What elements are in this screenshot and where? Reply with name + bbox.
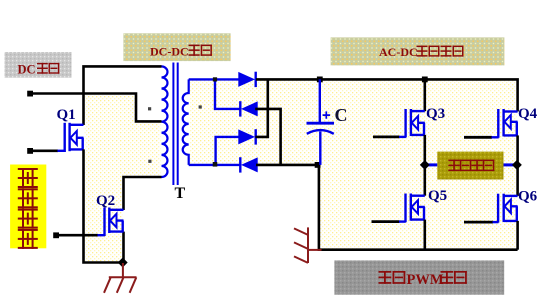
wire: D2 anode to bottom bus: [255, 109, 280, 165]
label box: AC output (交流输出): [437, 152, 503, 180]
wire: Q2 gate lead: [56, 234, 105, 237]
wire: DC- bottom bus: [256, 165, 518, 250]
svg-text:Q5: Q5: [428, 188, 447, 204]
transformer T primary winding: [162, 66, 168, 177]
node: cap top junction: [317, 77, 323, 83]
label box: AC-DC full-bridge inverter (AC-DC全桥逆变): [331, 37, 505, 65]
wire: Q4 source to node B to Q6 drain: [516, 135, 519, 196]
wire: Q5 gate lead: [372, 220, 406, 223]
transistor Q5: [406, 194, 425, 223]
label Q4: [518, 106, 538, 122]
transistor Q3: [406, 109, 425, 138]
transformer core: [173, 63, 177, 186]
svg-text:PWM: PWM: [407, 272, 444, 288]
svg-text:Q6: Q6: [518, 189, 538, 205]
wire: Q4 gate lead: [464, 136, 499, 139]
label Q1: [57, 107, 76, 123]
node: Q2 gate terminal: [53, 232, 59, 238]
capacitor C: [307, 79, 335, 164]
label T: [175, 185, 186, 202]
wire: Q5 source to bottom bus: [423, 220, 426, 250]
label box: DC-DC boost (DC-DC升压): [123, 33, 230, 61]
diode D1: [238, 72, 255, 87]
node: Q3 top junction: [422, 77, 428, 83]
wire: Q3 gate lead: [373, 135, 406, 138]
wire: primary bottom to Q2 drain: [124, 177, 162, 210]
node: AC output node B: [512, 160, 522, 170]
node: ground junction: [118, 258, 128, 268]
transistor Q2: [105, 208, 124, 237]
transistor Q1: [65, 123, 84, 152]
wire: AC output left (node A to label): [425, 163, 438, 166]
wire: AC output right (label to node B): [504, 163, 518, 166]
wire: secondary top to D1/D2: [189, 79, 241, 109]
transistor Q6: [498, 194, 517, 223]
label box: DC input (DC输入): [5, 52, 72, 78]
diode D2: [240, 101, 257, 116]
node: cap bottom junction: [315, 162, 321, 168]
svg-text:AC-DC: AC-DC: [379, 45, 418, 59]
node: secondary bottom junction: [213, 162, 218, 167]
wire: Q1 source to ground rail: [84, 149, 123, 262]
svg-text:C: C: [335, 105, 348, 125]
wire: Q6 source to bottom bus corner: [516, 221, 519, 250]
wire: D3 cathode to top bus: [255, 79, 267, 136]
transistor Q4: [498, 109, 517, 138]
ground (left): [104, 263, 137, 293]
svg-text:Q4: Q4: [518, 106, 538, 122]
diode D3: [238, 129, 255, 144]
wire: primary top to Q1 drain rail: [84, 66, 162, 125]
svg-text:DC: DC: [18, 63, 36, 77]
label Q2: [96, 193, 115, 209]
svg-text:Q1: Q1: [57, 107, 76, 123]
label C: [335, 105, 348, 125]
transformer T secondary winding: [183, 79, 189, 164]
label Q5: [428, 188, 447, 204]
svg-text:DC-DC: DC-DC: [150, 45, 189, 59]
label box: push-pull control (推挽控制): [10, 165, 46, 249]
transformer phase dots: [148, 105, 202, 162]
svg-text:T: T: [175, 185, 186, 202]
wire: Q1 gate lead: [30, 150, 65, 153]
ground (right): [294, 227, 322, 263]
wire: DC+ top bus: [256, 79, 518, 111]
node: AC output node A: [420, 160, 430, 170]
label Q6: [518, 189, 538, 205]
node: secondary top junction: [213, 77, 217, 81]
label Q3: [426, 106, 445, 122]
wire: secondary bottom to D3/D4: [189, 137, 240, 165]
wire: Q2 source to ground rail: [122, 232, 125, 263]
node: DC+ input terminal: [27, 91, 33, 97]
svg-text:Q3: Q3: [426, 106, 445, 122]
node: Q1 gate terminal: [27, 148, 33, 154]
diode D4: [240, 157, 257, 172]
wire: Q6 gate lead: [464, 221, 498, 224]
wire: Q3 source to node A to Q5 drain: [423, 135, 426, 196]
wire: top bus to Q3 drain: [423, 79, 426, 111]
svg-text:Q2: Q2: [96, 193, 115, 209]
label box: full-bridge PWM control (全桥PWM控制): [334, 260, 504, 294]
wire: DC+ input to transformer center tap: [30, 94, 162, 122]
